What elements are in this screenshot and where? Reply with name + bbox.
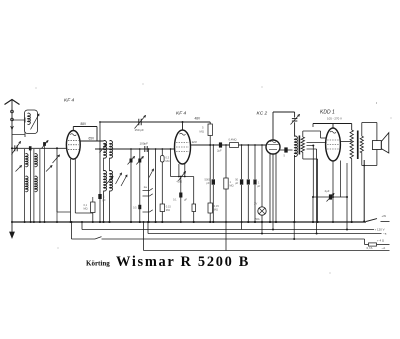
svg-text:100pF: 100pF — [140, 142, 149, 146]
svg-text:2µF: 2µF — [217, 149, 222, 153]
svg-text:pF: pF — [207, 181, 210, 185]
svg-text:12V: 12V — [192, 140, 197, 144]
svg-text:65V: 65V — [89, 137, 96, 141]
svg-text:105 - 270 V: 105 - 270 V — [327, 116, 342, 120]
svg-text:~A: ~A — [382, 246, 386, 250]
svg-text:KDD 1: KDD 1 — [320, 110, 335, 116]
svg-text:MΩ: MΩ — [84, 207, 88, 211]
svg-text:+ 4 Ω: + 4 Ω — [377, 238, 385, 242]
svg-text:0,4MΩ: 0,4MΩ — [229, 137, 237, 141]
svg-text:µF: µF — [103, 198, 106, 202]
svg-text:MΩ: MΩ — [230, 183, 234, 187]
svg-text:MΩ: MΩ — [200, 130, 204, 134]
svg-text:0,1: 0,1 — [84, 203, 88, 207]
svg-text:Körting: Körting — [86, 260, 110, 268]
svg-text:0,15: 0,15 — [214, 204, 220, 208]
svg-text:88V: 88V — [81, 122, 88, 126]
svg-text:KC 2: KC 2 — [257, 111, 268, 117]
svg-text:150 pF: 150 pF — [135, 128, 145, 132]
svg-text:µF: µF — [184, 198, 187, 202]
svg-text:KF 4: KF 4 — [64, 98, 74, 104]
svg-text:0,1: 0,1 — [173, 198, 177, 202]
svg-text:MΩ: MΩ — [166, 208, 170, 212]
svg-text:4000: 4000 — [177, 181, 183, 184]
svg-text:1a: 1a — [144, 185, 148, 189]
svg-text:MΩ: MΩ — [166, 159, 170, 163]
svg-text:~a: ~a — [383, 232, 387, 236]
svg-text:+W: +W — [382, 214, 387, 218]
svg-text:KF 4: KF 4 — [176, 111, 186, 117]
svg-text:80A: 80A — [255, 217, 260, 221]
svg-text:MΩ: MΩ — [214, 207, 218, 211]
svg-text:4µF: 4µF — [325, 189, 330, 193]
svg-text:2V: 2V — [254, 202, 257, 206]
svg-text:µF: µF — [235, 181, 238, 185]
svg-text:0,7A: 0,7A — [367, 246, 373, 250]
svg-text:Wismar R 5200 B: Wismar R 5200 B — [116, 254, 250, 270]
svg-text:µF: µF — [257, 184, 260, 188]
svg-text:0,5: 0,5 — [133, 206, 137, 210]
svg-text:48V: 48V — [195, 117, 202, 121]
